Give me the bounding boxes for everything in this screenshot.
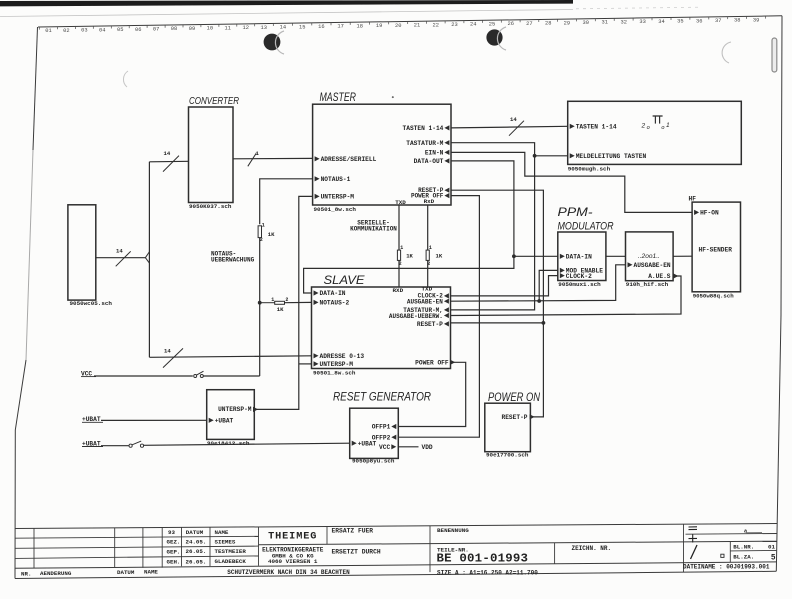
stray ink dot xyxy=(392,96,394,98)
svg-text:02: 02 xyxy=(63,28,69,34)
MASTER pin UNTERSP-M xyxy=(315,194,320,199)
frame left border xyxy=(33,27,38,150)
svg-text:1: 1 xyxy=(271,297,274,303)
SLAVE pin AUSGABE-EN xyxy=(444,299,449,304)
svg-text:MODULATOR: MODULATOR xyxy=(558,221,614,233)
line under = cell xyxy=(686,533,778,536)
svg-text:5: 5 xyxy=(771,555,776,563)
wire switch to RESET GEN +UBAT xyxy=(144,443,350,445)
svg-text:THEIMEG: THEIMEG xyxy=(268,532,317,543)
SLAVE pin CLOCK-2 xyxy=(444,293,449,298)
svg-text:26.05.: 26.05. xyxy=(186,548,207,555)
svg-text:93: 93 xyxy=(168,529,175,536)
punch hole right xyxy=(486,29,502,45)
svg-text:05: 05 xyxy=(117,27,123,33)
2001 pin AUSGABE-EN xyxy=(628,262,633,267)
wire +UBAT to UNTERSP xyxy=(101,419,207,421)
SLAVE pin TASTATUR-M xyxy=(444,307,449,312)
wire VCC to switch xyxy=(94,375,193,377)
svg-text:DATA-OUT: DATA-OUT xyxy=(414,158,444,165)
wire to SLAVE TXD xyxy=(427,260,429,287)
PPM pin MOD ENABLE xyxy=(560,268,565,273)
svg-text:23: 23 xyxy=(451,22,457,28)
junction xyxy=(258,301,262,305)
wire TASTEN 1-14 bus xyxy=(451,126,568,128)
UNTERSP pin +UBAT xyxy=(209,418,214,423)
svg-text:RXD: RXD xyxy=(393,287,404,294)
wire R2 to SLAVE NOTAUS-2 xyxy=(285,301,312,303)
svg-text:EIN-N: EIN-N xyxy=(425,150,444,157)
svg-text:NAME: NAME xyxy=(215,529,229,536)
svg-text:03: 03 xyxy=(81,28,87,34)
svg-text:VCC: VCC xyxy=(379,444,390,451)
block UNTERSP 90e18412 xyxy=(207,390,255,440)
svg-text:SIZE A : A1=16.250 A2=11.700: SIZE A : A1=16.250 A2=11.700 xyxy=(437,569,538,576)
block CONVERTER xyxy=(189,107,234,203)
MASTER pin NOTAUS-1 xyxy=(315,176,320,181)
svg-text:22: 22 xyxy=(433,22,439,28)
svg-text:28: 28 xyxy=(545,21,551,27)
PPM pin DATA-IN xyxy=(560,254,565,259)
svg-text:GLADEBECK: GLADEBECK xyxy=(215,558,247,565)
svg-text:MELDELEITUNG TASTEN: MELDELEITUNG TASTEN xyxy=(576,153,647,160)
svg-text:1: 1 xyxy=(429,245,432,251)
rev table row line xyxy=(15,536,259,538)
UNTERSP pin UNTERSP-M xyxy=(253,407,258,412)
wire DATA-OUT net xyxy=(304,161,514,293)
svg-text:90501_8w.sch: 90501_8w.sch xyxy=(314,206,357,213)
wire bus to SLAVE ADRESSE 0-13 xyxy=(149,356,311,358)
wire MASTER POWER OFF to OFFP2 xyxy=(398,196,479,438)
svg-text:RxD: RxD xyxy=(424,198,435,205)
svg-text:15: 15 xyxy=(299,24,305,30)
svg-text:TASTEN 1-14: TASTEN 1-14 xyxy=(403,125,444,132)
svg-text:30: 30 xyxy=(583,20,589,26)
svg-text:07: 07 xyxy=(153,27,159,33)
svg-text:MASTER: MASTER xyxy=(320,92,357,104)
block MASTER 90501_8w xyxy=(313,104,451,205)
wire bus to CONVERTER xyxy=(149,160,188,163)
underline VCC xyxy=(81,376,96,378)
svg-text:+UBAT: +UBAT xyxy=(215,417,234,424)
rev col line xyxy=(161,528,163,568)
MASTER pin TASTEN 1-14 xyxy=(444,125,449,130)
2001 pin A.UE.S xyxy=(673,273,678,278)
TASTATUR pin MELDELEITUNG TASTEN xyxy=(570,153,575,158)
ruler numbers 01-39 xyxy=(45,17,759,34)
svg-text:UNTERSP-M: UNTERSP-M xyxy=(320,361,354,368)
svg-text:UNTERSP-M: UNTERSP-M xyxy=(218,406,252,413)
POWERON pin RESET-P xyxy=(530,414,535,419)
svg-text:RESET-P: RESET-P xyxy=(502,414,528,421)
punch hole left xyxy=(264,34,281,51)
rev col line xyxy=(33,528,35,568)
svg-text:+UBAT: +UBAT xyxy=(358,440,377,447)
svg-text:09: 09 xyxy=(189,26,195,32)
wire R1 down to VCC switch / junction xyxy=(259,238,261,376)
bus slash 14 xyxy=(163,348,183,367)
svg-text:14: 14 xyxy=(510,116,517,123)
rev table row line xyxy=(15,556,259,559)
scan artifact: black bar top xyxy=(0,0,573,6)
punch hole shadow arcs xyxy=(275,31,284,54)
svg-text:2: 2 xyxy=(641,123,646,130)
resistor R3 1K vertical xyxy=(397,250,400,260)
svg-text:9050K037.sch: 9050K037.sch xyxy=(189,203,232,210)
svg-text:UEBERWACHUNG: UEBERWACHUNG xyxy=(211,257,255,264)
svg-text:90e18412.sch: 90e18412.sch xyxy=(207,440,250,447)
SLAVE pin NOTAUS-2 xyxy=(314,300,319,305)
svg-text:14: 14 xyxy=(116,247,123,254)
svg-text:1K: 1K xyxy=(406,253,413,260)
block HF-SENDER xyxy=(692,202,740,292)
projection symbol slash xyxy=(691,545,698,559)
wire branch to SLAVE UNTERSP-M xyxy=(299,363,312,365)
scan artifact: faint paper edge xyxy=(0,10,573,17)
RESETGEN pin OFFP1 xyxy=(391,424,396,429)
block keyboard-matrix 9050wc05 xyxy=(68,205,96,300)
MASTER pin TASTATUR-M xyxy=(444,140,449,145)
svg-text:DATA-IN: DATA-IN xyxy=(566,253,592,260)
switch S2 xyxy=(129,444,132,447)
svg-text:31: 31 xyxy=(601,20,607,26)
svg-text:20: 20 xyxy=(395,23,401,29)
svg-text:90501_8w.sch: 90501_8w.sch xyxy=(313,369,356,376)
svg-text:TASTATUR-M: TASTATUR-M xyxy=(406,140,443,147)
svg-text:o: o xyxy=(661,125,664,131)
svg-text:9050mux1.sch: 9050mux1.sch xyxy=(558,281,601,288)
rev col 93/DATUM xyxy=(181,528,183,567)
SLAVE pin ADRESSE 0-13 xyxy=(314,353,319,358)
svg-text:1K: 1K xyxy=(268,231,275,238)
small square mark xyxy=(721,554,724,557)
RESETGEN pin VCC xyxy=(391,444,396,449)
SLAVE pin RESET-P xyxy=(444,321,449,326)
svg-text:AUSGABE-EN: AUSGABE-EN xyxy=(634,262,671,269)
svg-text:DATA-IN: DATA-IN xyxy=(320,290,346,297)
svg-text:SLAVE: SLAVE xyxy=(324,273,366,287)
wire to SLAVE RXD xyxy=(398,260,400,287)
svg-text:26.05.: 26.05. xyxy=(186,558,207,565)
MASTER pin RESET-P xyxy=(444,188,449,193)
frame bottom border xyxy=(15,571,776,578)
wire SLAVE RESET-P branch xyxy=(451,322,544,324)
bus slash 1 xyxy=(248,153,256,166)
SLAVE pin DATA-IN xyxy=(314,290,319,295)
wire AUSGABE-UEBERW. to A.UE.S xyxy=(451,276,682,316)
svg-text:32: 32 xyxy=(620,19,626,25)
svg-text:..2oo1..: ..2oo1.. xyxy=(638,253,660,260)
rev table row line xyxy=(15,546,259,548)
svg-text:06: 06 xyxy=(135,27,141,33)
svg-text:16: 16 xyxy=(318,24,324,30)
junction xyxy=(537,299,541,303)
svg-text:POWER ON: POWER ON xyxy=(488,390,540,404)
svg-text:29: 29 xyxy=(564,20,570,26)
svg-text:9050w88q.sch: 9050w88q.sch xyxy=(693,293,735,300)
wire branch MELDELEITUNG TASTEN xyxy=(535,155,568,157)
svg-text:PPM-: PPM- xyxy=(558,207,593,219)
TASTATUR pin TASTEN 1-14 xyxy=(570,124,575,129)
svg-text:27: 27 xyxy=(526,21,532,27)
svg-text:ADRESSE 0-13: ADRESSE 0-13 xyxy=(320,353,365,360)
svg-text:a: a xyxy=(744,528,747,534)
frame right border xyxy=(776,16,782,572)
scan artifact top-right xyxy=(772,38,777,72)
svg-text:GEP.: GEP. xyxy=(167,548,181,555)
svg-text:1K: 1K xyxy=(277,306,284,313)
svg-text:SIEMES: SIEMES xyxy=(215,538,236,545)
svg-text:o: o xyxy=(647,125,650,131)
svg-text:24: 24 xyxy=(470,22,476,28)
svg-text:1: 1 xyxy=(666,122,670,129)
col BE/ZEICHN xyxy=(554,543,556,564)
wire CLOCK-2 net xyxy=(451,276,558,296)
wire junction to R2 xyxy=(260,302,275,304)
col ZEICHN/= right xyxy=(683,524,685,572)
resistor R4 1K vertical xyxy=(426,250,429,260)
svg-text:AENDERUNG: AENDERUNG xyxy=(40,570,72,577)
SLAVE pin UNTERSP-M xyxy=(314,361,319,366)
svg-text:37: 37 xyxy=(715,18,721,24)
junction xyxy=(512,254,516,258)
block POWER ON 90e17700 xyxy=(485,403,531,452)
svg-text:RESET GENERATOR: RESET GENERATOR xyxy=(333,391,431,403)
bus slash 14 xyxy=(163,156,179,172)
svg-text:18: 18 xyxy=(357,23,363,29)
svg-text:17: 17 xyxy=(337,24,343,30)
line between BL.NR/BL.ZA xyxy=(730,549,776,552)
svg-text:14: 14 xyxy=(280,25,286,31)
svg-text:VDD: VDD xyxy=(422,444,433,451)
wire 2001 out to HF-SENDER xyxy=(673,255,692,257)
svg-text:1K: 1K xyxy=(436,252,443,259)
svg-text:CONVERTER: CONVERTER xyxy=(189,96,239,107)
svg-text:2: 2 xyxy=(285,297,288,303)
SLAVE pin POWER OFF xyxy=(450,360,455,365)
wire branch MOD ENABLE xyxy=(539,270,558,301)
block PPM-MODULATOR 9050mux1 xyxy=(558,232,606,281)
wire vertical address bus xyxy=(148,162,150,357)
svg-text:08: 08 xyxy=(171,26,177,32)
svg-text:ERSATZ FUER: ERSATZ FUER xyxy=(332,528,374,535)
svg-text:25: 25 xyxy=(489,21,495,27)
svg-text:HF-SENDER: HF-SENDER xyxy=(699,247,733,254)
wire switch to R1 net xyxy=(203,375,259,377)
RESETGEN pin OFFP2 xyxy=(391,435,396,440)
svg-text:AUSGABE-UEBERW.: AUSGABE-UEBERW. xyxy=(389,313,443,320)
svg-text:9050p8yu.sch: 9050p8yu.sch xyxy=(352,458,395,465)
svg-text:10: 10 xyxy=(207,26,213,32)
svg-text:NOTAUS-2: NOTAUS-2 xyxy=(320,300,350,307)
switch S1 xyxy=(194,375,197,378)
svg-text:ZEICHN. NR.: ZEICHN. NR. xyxy=(572,545,612,552)
bus fork xyxy=(145,252,149,258)
svg-text:GEZ.: GEZ. xyxy=(167,539,181,546)
wire CONVERTER to MASTER ADRESSE/SERIELL xyxy=(233,157,313,159)
svg-text:RESET-P: RESET-P xyxy=(417,321,443,328)
svg-text:90e17700.sch: 90e17700.sch xyxy=(486,452,529,459)
wire VCC pin to VDD xyxy=(398,446,418,448)
frame top / ruler line xyxy=(38,16,782,27)
svg-text:38: 38 xyxy=(734,18,740,24)
svg-text:4060 VIERSEN 1: 4060 VIERSEN 1 xyxy=(268,558,318,565)
title block top line xyxy=(15,524,777,529)
svg-text:GEH.: GEH. xyxy=(167,558,181,565)
svg-text:9050mugh.sch: 9050mugh.sch xyxy=(568,166,611,173)
svg-text:KOMMUNIKATION: KOMMUNIKATION xyxy=(350,226,397,233)
wire branch to PPM DATA-IN xyxy=(514,255,558,257)
svg-text:ERSETZT DURCH: ERSETZT DURCH xyxy=(332,549,381,556)
svg-text:HF-ON: HF-ON xyxy=(700,210,719,217)
svg-text:39: 39 xyxy=(753,17,759,23)
svg-text:04: 04 xyxy=(99,27,105,33)
wire MASTER UNTERSP-M to UNTERSP block xyxy=(254,196,312,409)
col slash/BL xyxy=(729,542,731,563)
svg-text:ADRESSE/SERIELL: ADRESSE/SERIELL xyxy=(321,156,377,163)
svg-text:34: 34 xyxy=(658,19,664,25)
svg-text:36: 36 xyxy=(696,18,702,24)
MASTER pin EIN-N xyxy=(444,150,449,155)
PPM pin CLOCK-2 xyxy=(560,273,565,278)
svg-text:14: 14 xyxy=(164,150,171,157)
svg-text:14: 14 xyxy=(164,348,171,355)
svg-text:33: 33 xyxy=(639,19,645,25)
capacitor symbol + 2001 inside block xyxy=(653,115,663,117)
MASTER pin DATA-OUT xyxy=(444,158,449,163)
svg-text:13: 13 xyxy=(260,25,266,31)
resistor R1 1K vertical xyxy=(258,226,261,238)
block SLAVE 90501_8w xyxy=(312,287,451,369)
rev col line xyxy=(142,528,144,568)
svg-text:TASTEN 1-14: TASTEN 1-14 xyxy=(576,123,617,130)
svg-text:1: 1 xyxy=(262,223,265,229)
MASTER pin ADRESSE/SERIELL xyxy=(315,156,320,161)
junction xyxy=(542,321,546,325)
symbol = xyxy=(689,526,698,528)
svg-text:NR.: NR. xyxy=(21,570,31,577)
svg-text:12: 12 xyxy=(243,25,249,31)
junction xyxy=(533,154,537,158)
svg-text:NOTAUS-1: NOTAUS-1 xyxy=(321,176,351,183)
svg-text:21: 21 xyxy=(414,23,420,29)
svg-text:NAME: NAME xyxy=(144,569,158,576)
wire MASTER NOTAUS-1 down xyxy=(260,179,313,224)
block RESET GENERATOR 9050p8yu xyxy=(350,408,399,458)
svg-text:BENENNUNG: BENENNUNG xyxy=(437,527,469,534)
SLAVE pin AUSGABE-UEBERW. xyxy=(444,313,449,318)
RESETGEN pin +UBAT xyxy=(352,441,357,446)
svg-text:BL.NR.: BL.NR. xyxy=(733,544,754,551)
title block line above bottom row xyxy=(15,562,777,568)
wire MASTER TXD down xyxy=(398,205,400,250)
wire PPM out to 2001 xyxy=(606,255,626,257)
svg-text:TXD: TXD xyxy=(422,286,433,293)
col ERSATZ/BENENNUNG xyxy=(429,526,431,572)
svg-text:19: 19 xyxy=(376,23,382,29)
svg-text:A.UE.S: A.UE.S xyxy=(648,273,671,280)
resistor R2 1K horizontal xyxy=(275,301,285,304)
block 2001 910h_hif xyxy=(626,232,674,281)
wire RESET-P net xyxy=(451,190,543,417)
svg-text:01: 01 xyxy=(768,544,775,551)
rev col DATUM/NAME xyxy=(209,527,211,566)
rev col line xyxy=(114,528,116,568)
svg-text:SCHUTZVERMERK NACH DIN 34 BEAC: SCHUTZVERMERK NACH DIN 34 BEACHTEN xyxy=(227,569,350,576)
svg-text:UNTERSP-M: UNTERSP-M xyxy=(321,194,355,201)
svg-text:OFFP1: OFFP1 xyxy=(372,424,391,431)
svg-text:AUSGABE-EN: AUSGABE-EN xyxy=(407,298,443,305)
col THEIMEG/ERSATZ xyxy=(326,527,328,545)
col NAME/THEIMEG xyxy=(258,527,260,566)
block TASTATUR 2001 xyxy=(568,101,742,164)
svg-text:01: 01 xyxy=(45,28,51,34)
svg-text:BL.ZA.: BL.ZA. xyxy=(733,553,754,560)
wire AUSGABE-EN net xyxy=(451,265,626,301)
svg-text:24.05.: 24.05. xyxy=(186,539,207,546)
svg-text:9050wc05.sch: 9050wc05.sch xyxy=(70,300,113,307)
svg-text:35: 35 xyxy=(677,19,683,25)
svg-text:CLOCK-2: CLOCK-2 xyxy=(566,273,592,280)
wire bus from left block xyxy=(96,257,146,259)
bus slash 14 xyxy=(116,251,131,266)
HF pin HF-ON xyxy=(694,210,699,215)
svg-text:11: 11 xyxy=(225,25,231,31)
symbol + xyxy=(689,537,698,539)
svg-text:BE 001-01993: BE 001-01993 xyxy=(437,552,529,566)
wire MASTER RxD down xyxy=(427,205,429,250)
svg-text:TXD: TXD xyxy=(395,199,406,206)
wire SLAVE POWER OFF to OFFP1 xyxy=(398,362,465,426)
svg-text:TESTMEIER: TESTMEIER xyxy=(215,548,247,555)
wire EIN-N to HF-ON xyxy=(451,152,692,212)
svg-text:26: 26 xyxy=(507,21,513,27)
wire +UBAT to switch xyxy=(101,445,129,447)
title block middle line xyxy=(259,541,778,545)
svg-text:1: 1 xyxy=(400,245,403,251)
svg-text:POWER OFF: POWER OFF xyxy=(415,359,449,366)
wire TASTATUR-M net xyxy=(451,143,535,310)
svg-text:910h_hif.sch: 910h_hif.sch xyxy=(626,281,669,288)
MASTER pin POWER OFF xyxy=(444,193,449,198)
ruler ticks xyxy=(39,16,765,30)
svg-text:DATUM: DATUM xyxy=(186,529,204,536)
bus slash 14 xyxy=(509,121,524,136)
svg-text:DATEINAME : 00J01993.001: DATEINAME : 00J01993.001 xyxy=(683,564,770,571)
svg-text:DATUM: DATUM xyxy=(117,569,135,576)
